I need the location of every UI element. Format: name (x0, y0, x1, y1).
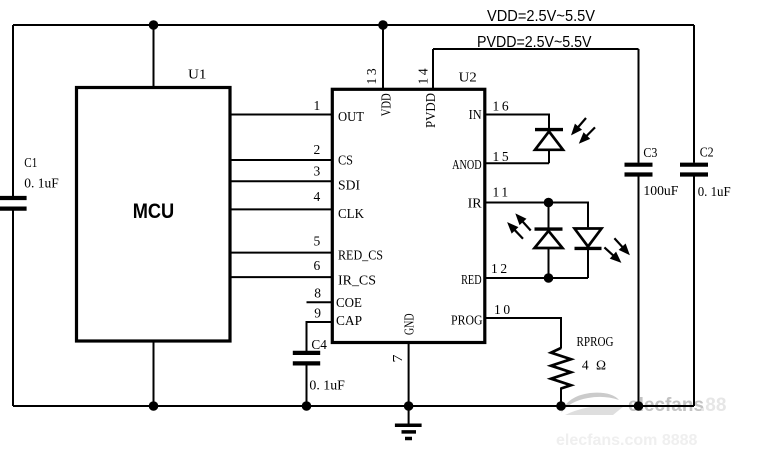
svg-text:IR: IR (468, 196, 482, 211)
svg-text:OUT: OUT (338, 109, 365, 124)
svg-text:6: 6 (314, 258, 321, 273)
svg-text:7: 7 (390, 354, 405, 362)
svg-text:RPROG: RPROG (577, 334, 614, 349)
svg-text:10: 10 (494, 302, 513, 317)
svg-text:8: 8 (314, 285, 321, 300)
svg-text:ANOD: ANOD (452, 157, 482, 172)
svg-text:SDI: SDI (338, 178, 360, 193)
svg-text:U2: U2 (459, 70, 477, 85)
svg-text:COE: COE (336, 295, 362, 310)
svg-text:MCU: MCU (133, 200, 175, 223)
svg-text:RED: RED (461, 272, 482, 287)
svg-text:.88: .88 (700, 395, 726, 416)
svg-text:U1: U1 (188, 67, 207, 82)
svg-text:15: 15 (493, 149, 512, 164)
svg-text:0. 1uF: 0. 1uF (24, 176, 59, 191)
svg-text:PROG: PROG (451, 313, 483, 328)
svg-text:CLK: CLK (338, 206, 364, 221)
svg-text:4: 4 (314, 189, 321, 204)
svg-text:C4: C4 (311, 337, 327, 352)
svg-text:12: 12 (491, 261, 510, 276)
svg-text:C2: C2 (700, 144, 714, 159)
svg-text:PVDD: PVDD (423, 93, 438, 128)
svg-text:16: 16 (493, 99, 512, 114)
svg-text:100uF: 100uF (643, 183, 678, 198)
svg-text:4 Ω: 4 Ω (582, 358, 608, 373)
svg-text:5: 5 (314, 234, 321, 249)
svg-text:14: 14 (416, 66, 431, 85)
svg-text:PVDD=2.5V~5.5V: PVDD=2.5V~5.5V (477, 34, 592, 51)
svg-text:CS: CS (338, 153, 353, 168)
svg-text:IN: IN (469, 107, 482, 122)
svg-text:VDD=2.5V~5.5V: VDD=2.5V~5.5V (487, 8, 595, 25)
svg-text:elecfans.com 8888: elecfans.com 8888 (556, 432, 698, 449)
svg-text:IR_CS: IR_CS (338, 273, 376, 288)
svg-text:RED_CS: RED_CS (338, 248, 383, 263)
svg-text:11: 11 (493, 185, 511, 200)
svg-text:C1: C1 (24, 155, 37, 170)
svg-text:1: 1 (314, 98, 321, 113)
svg-text:2: 2 (314, 142, 321, 157)
svg-text:3: 3 (314, 163, 321, 178)
svg-text:13: 13 (364, 66, 379, 85)
svg-text:CAP: CAP (336, 313, 362, 328)
svg-text:9: 9 (314, 305, 321, 320)
svg-text:C3: C3 (643, 145, 657, 160)
svg-text:GND: GND (402, 313, 417, 335)
svg-text:VDD: VDD (379, 93, 394, 116)
svg-text:0. 1uF: 0. 1uF (698, 184, 731, 199)
svg-text:0. 1uF: 0. 1uF (309, 378, 345, 393)
